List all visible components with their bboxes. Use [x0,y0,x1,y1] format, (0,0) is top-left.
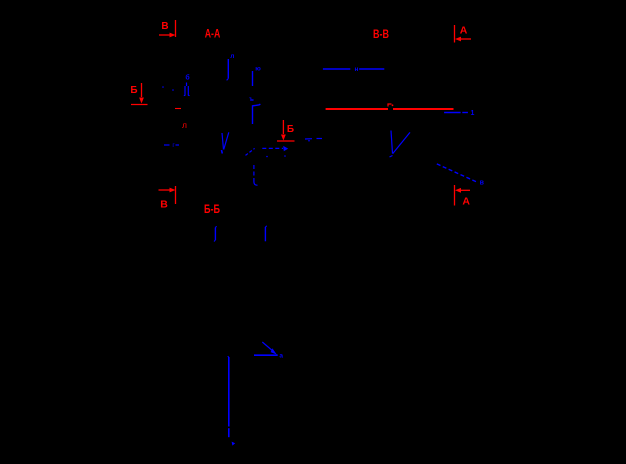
svg-text:ю: ю [255,65,261,72]
svg-text:Б-Б: Б-Б [204,204,220,216]
svg-text:А: А [460,25,468,37]
svg-text:а: а [279,353,283,360]
svg-text:н: н [355,66,359,73]
svg-text:б: б [185,74,190,82]
svg-text:Б: Б [130,85,137,96]
svg-text:Б: Б [287,124,294,135]
svg-text:л: л [182,120,187,130]
svg-text:А-А: А-А [205,29,221,41]
svg-text:в: в [480,180,485,187]
svg-text:ъ: ъ [249,96,254,103]
svg-text:л: л [230,53,234,60]
svg-text:В-В: В-В [373,29,389,41]
svg-text:А: А [462,196,470,208]
svg-text:В: В [160,199,168,211]
svg-text:1: 1 [471,110,475,117]
svg-text:В: В [161,21,168,32]
